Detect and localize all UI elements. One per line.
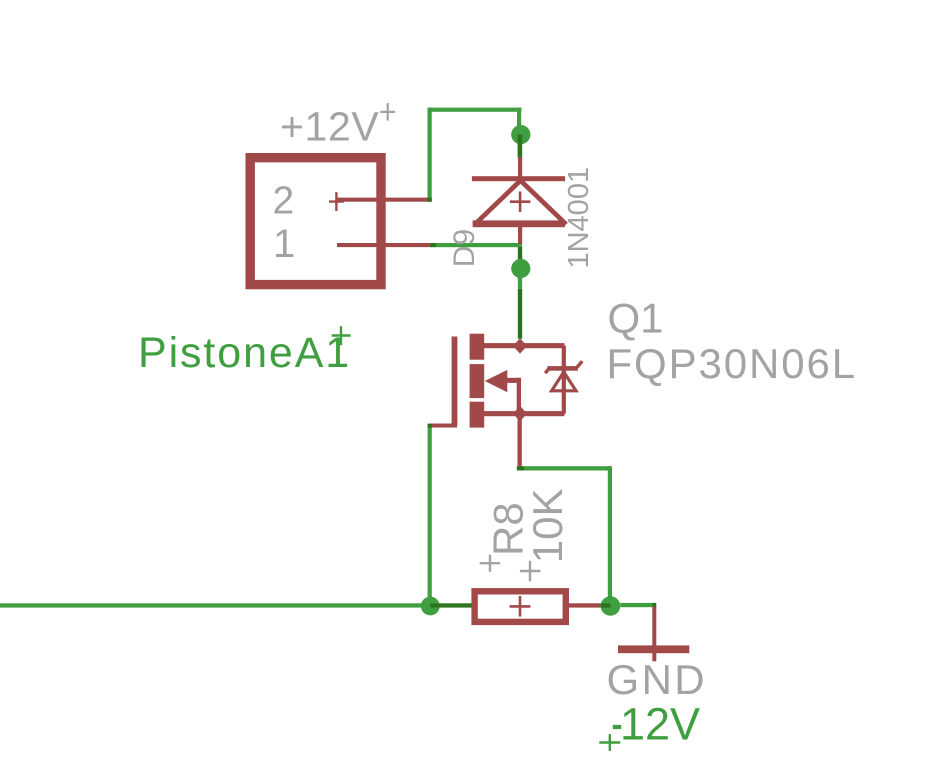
ground GND pin vertical	[652, 607, 656, 662]
label -12V origin cross	[599, 734, 620, 751]
resistor R8 right pin dark overlap	[600, 603, 610, 607]
label PistoneA1 origin cross	[332, 326, 351, 345]
diode D9 triangle base	[473, 220, 565, 227]
svg-text:FQP30N06L: FQP30N06L	[607, 340, 858, 387]
transistor Q1 middle plate	[470, 364, 485, 398]
transistor Q1 substrate arrow	[485, 370, 508, 392]
transistor Q1 body diode triangle	[552, 372, 576, 391]
transistor Q1 mid vertical	[517, 378, 521, 413]
pin 1 line	[337, 243, 430, 247]
transistor Q1 body diode bar	[547, 366, 578, 371]
wire gate net dark cap	[428, 424, 432, 429]
drain pin dark segment	[518, 289, 522, 339]
resistor R8 right pin	[569, 603, 601, 607]
resistor R8 body	[475, 591, 566, 622]
transistor Q1 drain junction diamond	[513, 338, 527, 354]
diode D9 triangle left side	[475, 181, 521, 225]
transistor Q1 gate vertical	[452, 337, 458, 426]
resistor R8 left pin (dark overlap)	[430, 603, 472, 607]
transistor Q1 gate pin	[430, 424, 457, 428]
svg-text:D9: D9	[448, 229, 481, 267]
wire net pin1 to diode horizontal	[436, 243, 522, 247]
wire dark vertical into bottom diode junction	[518, 247, 522, 269]
transistor Q1 body diode left hook	[545, 369, 548, 373]
svg-text:12V: 12V	[620, 699, 700, 750]
wire overlap dark at pin2 corner	[428, 198, 432, 202]
label R8 origin cross	[480, 555, 501, 572]
label minus dash	[613, 725, 621, 729]
wire net +12V top horizontal	[428, 108, 522, 112]
svg-text:1N4001: 1N4001	[563, 167, 595, 269]
transistor Q1 body diode vertical	[562, 346, 566, 414]
wire overlap dark at pin1 end	[430, 243, 436, 247]
label 10K origin cross	[520, 561, 541, 582]
resistor R8 origin cross	[510, 596, 531, 617]
pin overlap dark segment below top junction	[518, 135, 523, 158]
junction dot top (diode cathode)	[511, 125, 530, 144]
svg-text:1: 1	[273, 222, 295, 266]
wire bottom horizontal from left	[0, 603, 430, 607]
transistor Q1 arrow line	[507, 378, 521, 383]
wire right of right junction	[620, 603, 652, 607]
wire from junction down (bright)	[518, 278, 522, 289]
transistor Q1 source junction diamond	[513, 406, 527, 422]
transistor Q1 bottom line	[484, 411, 565, 416]
diode D9 top lead	[518, 157, 522, 177]
transistor Q1 source lead	[518, 414, 522, 467]
junction dot right	[601, 596, 621, 616]
svg-text:+12V: +12V	[280, 104, 379, 150]
pin 2 line	[337, 198, 430, 202]
label +12V origin cross	[380, 103, 395, 121]
transistor Q1 drain line	[484, 343, 565, 348]
wire source net dark corner	[517, 466, 525, 470]
diode D9 origin cross	[510, 192, 531, 212]
wire source net horizontal	[525, 466, 611, 470]
ground GND bar	[618, 645, 689, 653]
connector origin cross	[329, 192, 344, 211]
svg-text:PistoneA1: PistoneA1	[138, 329, 351, 377]
transistor Q1 top plate	[470, 334, 485, 360]
diode D9 cathode bar	[472, 176, 565, 181]
connector X1 box	[250, 158, 381, 285]
wire gate net vertical	[428, 428, 432, 607]
wire dark corner at GND pin	[653, 603, 657, 607]
wire net +12V left vertical	[428, 108, 432, 202]
svg-text:10K: 10K	[524, 488, 571, 563]
junction dot bottom (diode anode)	[511, 259, 530, 278]
svg-text:GND: GND	[607, 656, 708, 703]
svg-text:Q1: Q1	[608, 295, 664, 342]
wire net +12V right vertical	[517, 108, 521, 135]
diode D9 bottom lead	[518, 227, 522, 244]
wire source net right vertical	[608, 466, 612, 605]
junction dot left	[421, 597, 440, 616]
transistor Q1 bottom plate	[470, 402, 485, 428]
diode D9 triangle right side	[521, 181, 567, 225]
svg-text:2: 2	[273, 180, 295, 223]
transistor Q1 body diode right hook	[577, 361, 582, 367]
